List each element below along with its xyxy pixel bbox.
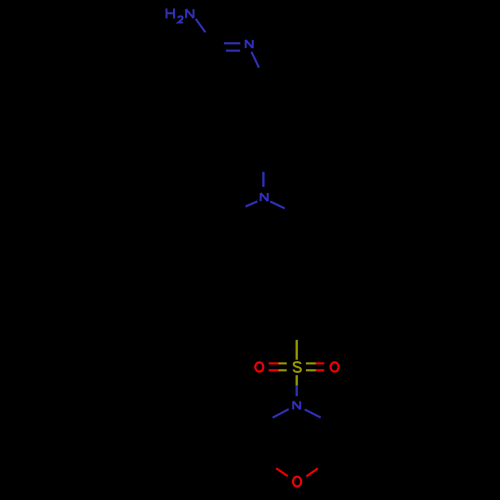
bond CH2 to piperidine N (blue half, vertical) (262, 172, 264, 187)
bond S to morpholine N (blue half) (296, 386, 298, 397)
amine label H2N : letter N (186, 9, 193, 18)
bond piperidine N down-right (blue half) (270, 202, 285, 209)
right O label (331, 362, 339, 371)
pyridine N1 label (246, 40, 253, 48)
left O label (255, 362, 263, 371)
bond N1 to C6 (blue half) (251, 52, 259, 68)
S=O right double bond (306, 363, 324, 370)
bond C to morpholine O left (red half) (276, 468, 288, 476)
morpholine N label (293, 401, 300, 409)
amine label H2N : letter H (167, 9, 175, 19)
S=O left double bond (269, 363, 287, 370)
sulfur S label (294, 362, 301, 372)
amine label H2N : subscript 2 (178, 16, 183, 22)
bond morpholine N down-left (blue half) (273, 409, 289, 418)
bond C to morpholine O right (red half) (306, 468, 318, 476)
bond piperidine N down-left (blue half) (246, 201, 258, 206)
bond C to S (olive half, vertical) (296, 340, 298, 360)
piperidine N label (261, 193, 268, 201)
morpholine O label (293, 477, 301, 487)
bond S to morpholine N (olive half) (296, 375, 298, 385)
double bond C2=N1, blue halves (224, 43, 240, 50)
bond morpholine N down-right (blue half) (305, 409, 321, 417)
bond NH2 to C2 (blue half) (196, 19, 206, 32)
